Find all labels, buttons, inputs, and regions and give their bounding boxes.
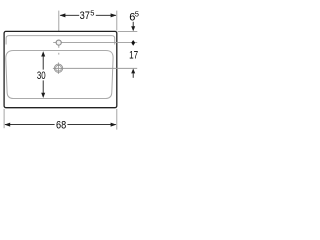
arrow left of 37.5 [60, 13, 66, 17]
arrow down of 6.5 dimension [132, 22, 134, 28]
dimension 68 line right segment [67, 124, 115, 126]
arrow top of 30 [41, 51, 45, 56]
dimension 30 vertical line lower segment [42, 80, 44, 95]
svg-text:17: 17 [129, 50, 138, 62]
dimension 30 vertical line upper segment [42, 54, 44, 70]
basin outer rim [4, 31, 117, 107]
drain horizontal centerline [53, 67, 137, 69]
svg-text:5: 5 [90, 8, 94, 17]
svg-text:68: 68 [56, 120, 66, 132]
svg-text:5: 5 [135, 10, 139, 19]
basin deck inner edge line [6, 36, 115, 45]
drain outer circle [54, 64, 62, 72]
arrow right of 37.5 [111, 13, 117, 17]
dimension 37.5 line right segment [96, 14, 116, 16]
tap hole vertical centerline stub below [58, 45, 60, 48]
extension line: tap hole centerline up to top dimension [58, 11, 60, 40]
diamond arrows at tap centerline (6.5 / 17 shared) [131, 40, 135, 46]
drain inner circle [56, 65, 62, 71]
arrow bottom of 30 [41, 93, 45, 98]
svg-text:30: 30 [37, 70, 46, 82]
dimension 68 line left segment [5, 124, 55, 126]
arrow right of 68 [111, 123, 117, 127]
tap hole centerline dash [58, 53, 60, 55]
arrow up at drain centerline (17 dimension) [131, 69, 135, 74]
extension line: back edge to the right [118, 30, 138, 32]
drain vertical centerline [57, 63, 59, 74]
arrow left of 68 [4, 123, 10, 127]
svg-text:37: 37 [80, 10, 90, 22]
tap hole [56, 40, 61, 45]
tap hole horizontal centerline [53, 42, 137, 44]
dimension 37.5 line left segment [60, 14, 79, 16]
bowl outline [6, 51, 113, 99]
extension line: right edge of basin up to top dimension [116, 11, 118, 31]
extension line: left edge down to bottom dimension [3, 109, 5, 128]
extension line: right edge down to bottom dimension [116, 109, 118, 130]
